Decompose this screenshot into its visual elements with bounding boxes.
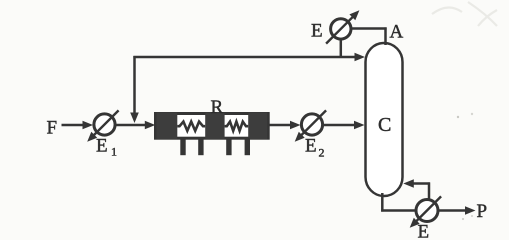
svg-text:P: P xyxy=(477,201,488,222)
svg-text:A: A xyxy=(390,22,404,43)
svg-text:R: R xyxy=(211,97,224,118)
svg-text:E: E xyxy=(305,136,317,157)
svg-text:F: F xyxy=(47,118,58,139)
svg-text:C: C xyxy=(378,114,391,136)
svg-text:2: 2 xyxy=(319,146,325,160)
svg-text:E: E xyxy=(96,136,108,157)
svg-text:1: 1 xyxy=(111,145,117,159)
svg-text:E: E xyxy=(418,222,430,240)
svg-text:E: E xyxy=(311,21,323,42)
